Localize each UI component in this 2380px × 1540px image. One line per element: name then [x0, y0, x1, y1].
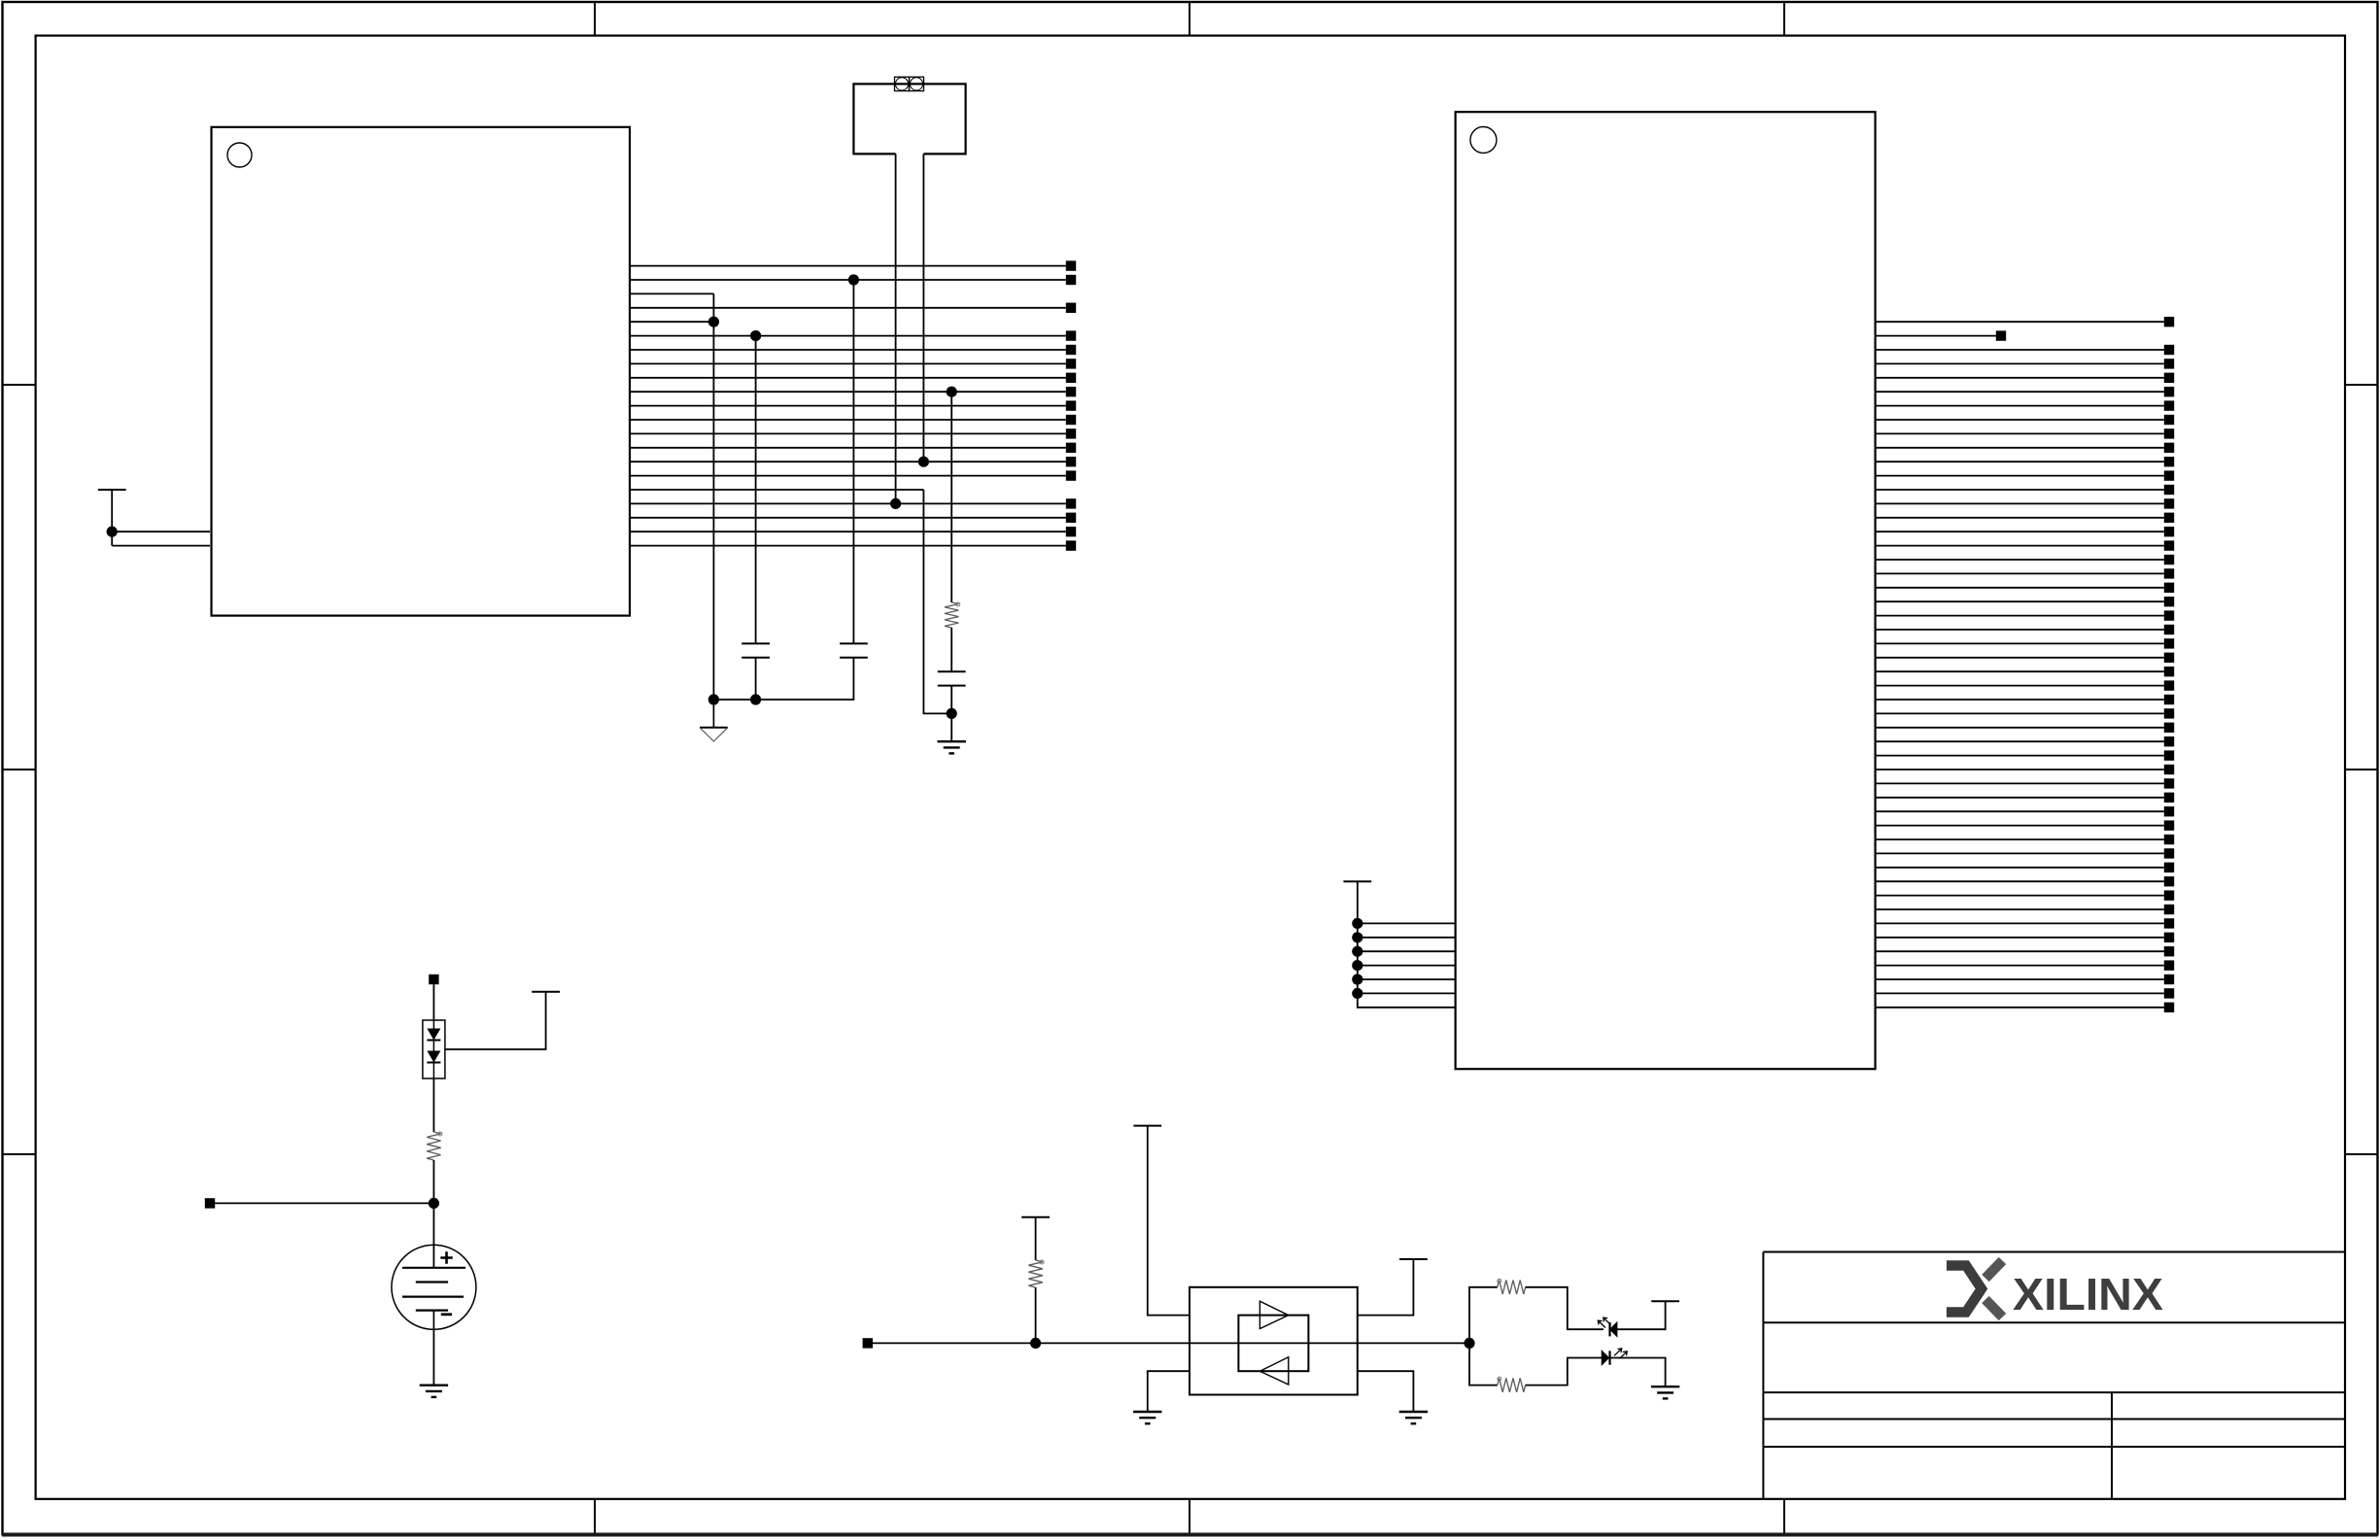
off-page terminal Q32 [2164, 750, 2174, 760]
junction J9 [947, 708, 957, 719]
off-page terminal Q9 [2164, 428, 2174, 438]
wire GND vertical x734 [712, 293, 714, 700]
wire DS2-GND wire [1610, 1358, 1666, 1387]
off-page terminal P15 [1066, 457, 1076, 466]
junction JV3 [1352, 946, 1362, 957]
wire U1 pin row A10 [630, 432, 1066, 434]
off-page terminal Q34 [2164, 778, 2174, 788]
off-page terminal Q30 [2164, 723, 2174, 733]
off-page terminal Q6 [2164, 387, 2174, 396]
wire U2 pin row B28 [1876, 712, 2164, 714]
wire U2 pin row B44 [1876, 937, 2164, 939]
wire U1 pin row A15 [630, 517, 1066, 519]
wire U2 pin row B6 [1876, 405, 2164, 407]
ground GND1 [938, 741, 966, 753]
wire U2 pin row B27 [1876, 699, 2164, 701]
resistor R3 [1028, 1260, 1044, 1287]
wire U2 pin row B43 [1876, 922, 2164, 924]
off-page terminal Q27 [2164, 680, 2174, 690]
off-page terminal P18 [1066, 498, 1076, 508]
off-page terminal P19 [1066, 513, 1076, 523]
wire U2 pin row B41 [1876, 895, 2164, 897]
wire U2 pin row B49 [1876, 1007, 2164, 1009]
junction J7 [750, 694, 761, 704]
junction J1 [708, 317, 719, 327]
resistor R2 [427, 1132, 442, 1160]
off-page terminal Q50 [2164, 1003, 2174, 1012]
wire U2 pin row B22 [1876, 629, 2164, 631]
wire U1 pin row A11 [630, 447, 1066, 449]
wire U2 pin row B19 [1876, 587, 2164, 589]
power tap VCC tap DS1 [1651, 1300, 1679, 1302]
wire U2 pin row B24 [1876, 657, 2164, 659]
wire U3 left gnd wire [1148, 1371, 1190, 1412]
wire U2 pin row B46 [1876, 965, 2164, 967]
Xilinx logo [1947, 1261, 2163, 1320]
wire R3 top lead [1035, 1217, 1037, 1260]
wire U2 pin row B29 [1876, 727, 2164, 729]
off-page terminal P8 [1066, 359, 1076, 368]
wire R1 top lead [950, 392, 952, 602]
off-page terminal P16 [1066, 470, 1076, 480]
junction JV2 [1352, 932, 1362, 942]
battery BT1 [392, 1245, 476, 1329]
IC U1 [212, 127, 631, 616]
off-page terminal Q40 [2164, 863, 2174, 873]
wire U2 pin row B32 [1876, 769, 2164, 770]
off-page terminal P6 [1066, 330, 1076, 340]
off-page terminal P13 [1066, 428, 1076, 438]
wire U2 pin row B35 [1876, 810, 2164, 812]
wire U2 pin row B31 [1876, 755, 2164, 757]
off-page terminal Q41 [2164, 876, 2174, 886]
wire U2 pin row B16 [1876, 545, 2164, 547]
off-page terminal Q39 [2164, 848, 2174, 858]
wire U1 pin row A8 [630, 405, 1066, 407]
off-page terminal P20 [1066, 527, 1076, 536]
off-page terminal P2 [1066, 275, 1076, 285]
off-page terminal Q11 [2164, 457, 2174, 466]
off-page terminal SENSE terminal [205, 1198, 215, 1208]
off-page terminal Q47 [2164, 960, 2174, 970]
wire U3 right vcc wire [1358, 1259, 1414, 1316]
junction JV6 [1352, 988, 1362, 999]
junction JV4 [1352, 960, 1362, 971]
off-page terminal Q44 [2164, 918, 2174, 928]
off-page terminal Q14 [2164, 498, 2174, 508]
wire VCCO bus vertical [1358, 881, 1456, 1008]
off-page terminal P21 [1066, 540, 1076, 550]
LED DS1 [1598, 1318, 1617, 1336]
off-page terminal Q46 [2164, 946, 2174, 956]
off-page terminal Q5 [2164, 373, 2174, 383]
wire D1-R2 lead [432, 1078, 434, 1132]
wire U2 pin row B2 [1876, 349, 2164, 351]
junction J10 [429, 1198, 439, 1209]
wire U2 pin row B38 [1876, 852, 2164, 854]
wire U1 gnd net stub [630, 321, 713, 323]
buffer U3 [1190, 1287, 1358, 1395]
wire U1 left pin lower [112, 545, 210, 547]
resistor R1 [945, 602, 960, 628]
off-page terminal Q23 [2164, 625, 2174, 634]
wire OUT wire [1358, 1342, 1469, 1344]
capacitor C3 [938, 671, 966, 685]
wire U1 pin row A16 [630, 530, 1066, 532]
wire U2 pin row B11 [1876, 475, 2164, 477]
off-page terminal Q36 [2164, 806, 2174, 816]
oscillator Y1 [853, 77, 965, 154]
wire U2 pin row B25 [1876, 670, 2164, 672]
svg-text:XILINX: XILINX [2013, 1269, 2163, 1319]
wire sense wire [215, 1202, 433, 1204]
wire U3 vcc wire [1148, 1126, 1190, 1316]
off-page terminal P12 [1066, 415, 1076, 425]
off-page terminal PWR terminal [429, 975, 438, 984]
off-page terminal P14 [1066, 443, 1076, 453]
wire U2 pin row B17 [1876, 559, 2164, 561]
wire GND net x950 descent [923, 490, 951, 713]
wire U2 pin row B3 [1876, 362, 2164, 364]
off-page terminal Q18 [2164, 555, 2174, 565]
wire LED bottom branch [1469, 1343, 1498, 1385]
wire LED top branch [1469, 1287, 1498, 1344]
off-page terminal Q17 [2164, 540, 2174, 550]
resistor R5 [1498, 1377, 1526, 1392]
wire U2 pin row B13 [1876, 502, 2164, 504]
off-page terminal Q35 [2164, 793, 2174, 803]
off-page terminal Q25 [2164, 653, 2174, 663]
wire U3 through wire [1190, 1342, 1358, 1344]
off-page terminal Q4 [2164, 359, 2174, 368]
wire R1-C3 lead [950, 628, 952, 671]
wire U1 pin row A7 [630, 391, 1066, 393]
off-page terminal Q2 [1996, 330, 2006, 340]
wire C3 bottom lead [950, 686, 952, 742]
off-page terminal Q13 [2164, 485, 2174, 495]
wire VREF stem [111, 490, 113, 546]
off-page terminal P11 [1066, 400, 1076, 410]
off-page terminal P7 [1066, 345, 1076, 355]
wire U1 pin row A3 [630, 335, 1066, 337]
junction J2 [750, 330, 761, 341]
wire GND rail [713, 699, 755, 701]
wire U1 gnd net 3 [630, 489, 923, 491]
wire U1 pin row A2 [630, 307, 1066, 309]
off-page terminal Q28 [2164, 695, 2174, 704]
wire U1 pin row A1 [630, 279, 1066, 281]
wire U2 pin row B4 [1876, 377, 2164, 379]
wire U1 gnd net corner [630, 292, 713, 294]
wire U2 pin row B45 [1876, 950, 2164, 952]
power tap VCC tap R3 [1021, 1216, 1050, 1218]
power tap VCC tap U3 [1133, 1125, 1161, 1127]
wire U2 pin row B26 [1876, 685, 2164, 687]
off-page terminal Q48 [2164, 975, 2174, 984]
off-page terminal Q26 [2164, 667, 2174, 676]
IC U2 [1456, 112, 1876, 1069]
junction J6 [708, 694, 719, 704]
wire U1 pin row A0 [630, 265, 1066, 267]
wire U2 pin row B1 (short) [1876, 335, 1996, 337]
wire U2 pin row B36 [1876, 825, 2164, 827]
junction JV1 [1352, 918, 1362, 929]
off-page terminal Q49 [2164, 988, 2174, 998]
off-page terminal Q24 [2164, 638, 2174, 648]
resistor R4 [1498, 1279, 1526, 1294]
wire U2 pin row B47 [1876, 978, 2164, 980]
wire C2 net vertical [756, 280, 854, 700]
wire U2 left pin row 6 [1358, 992, 1456, 994]
wire U2 pin row B18 [1876, 572, 2164, 574]
wire U2 left pin row 1 [1358, 922, 1456, 924]
off-page terminal Q8 [2164, 415, 2174, 425]
wire U1 pin row A17 [630, 545, 1066, 547]
capacitor C1 [742, 643, 770, 657]
junction J3 [848, 274, 859, 285]
junction left stub node [107, 527, 118, 537]
wire U2 pin row B14 [1876, 517, 2164, 519]
off-page terminal Q37 [2164, 820, 2174, 830]
off-page terminal Q33 [2164, 765, 2174, 774]
junction J12 [1464, 1338, 1474, 1349]
off-page terminal Q19 [2164, 568, 2174, 578]
wire R4-DS1 wire [1526, 1287, 1604, 1329]
wire U2 pin row B8 [1876, 432, 2164, 434]
wire U2 pin row B10 [1876, 461, 2164, 462]
junction J8 [947, 387, 957, 397]
wire U2 pin row B42 [1876, 908, 2164, 910]
off-page terminal Q3 [2164, 345, 2174, 355]
off-page terminal Q1 [2164, 317, 2174, 326]
ground GND4 [1399, 1412, 1428, 1423]
capacitor C2 [840, 643, 868, 657]
wire U2 pin row B37 [1876, 838, 2164, 840]
power tap VCCO tap [1343, 880, 1371, 882]
off-page terminal Q7 [2164, 400, 2174, 410]
wire U2 pin row B12 [1876, 489, 2164, 491]
wire U2 left pin row 4 [1358, 965, 1456, 967]
junction JV5 [1352, 974, 1362, 984]
off-page terminal Q31 [2164, 736, 2174, 746]
wire U2 pin row B21 [1876, 615, 2164, 617]
off-page terminal Q20 [2164, 583, 2174, 593]
wire U2 pin row B7 [1876, 419, 2164, 421]
off-page terminal Q10 [2164, 443, 2174, 453]
off-page terminal SIG terminal [863, 1338, 873, 1348]
ground GND5 [1651, 1386, 1679, 1398]
dual diode D1 [423, 1020, 445, 1078]
wire U1 pin row A14 [630, 502, 1066, 504]
wire R2-BT1 lead [432, 1160, 434, 1268]
wire U2 pin row B48 [1876, 992, 2164, 994]
wire C1 net vertical [755, 336, 757, 700]
junction J4 [890, 498, 901, 509]
wire Y1 left leg [895, 154, 897, 503]
wire U1 pin row A6 [630, 377, 1066, 379]
off-page terminal Q22 [2164, 610, 2174, 620]
off-page terminal Q29 [2164, 708, 2174, 718]
wire U2 pin row B23 [1876, 642, 2164, 644]
wire U2 left pin row 2 [1358, 937, 1456, 939]
wire U2 pin row B34 [1876, 797, 2164, 799]
wire U1 left pin upper [112, 530, 210, 532]
wire U2 pin row B15 [1876, 530, 2164, 532]
wire U2 pin row B30 [1876, 740, 2164, 742]
wire U2 pin row B9 [1876, 447, 2164, 449]
wire Y1 right leg [922, 154, 924, 462]
power tap VREF tap [98, 489, 126, 491]
off-page terminal Q15 [2164, 513, 2174, 523]
off-page terminal Q21 [2164, 597, 2174, 606]
off-page terminal Q42 [2164, 890, 2174, 900]
wire U1 pin row A9 [630, 419, 1066, 421]
wire U2 pin row B5 [1876, 391, 2164, 393]
wire R5-DS2 wire [1526, 1358, 1603, 1386]
LED DS2 [1602, 1349, 1627, 1365]
wire U1 pin row A13 [630, 475, 1066, 477]
wire U3 right gnd wire [1358, 1371, 1414, 1412]
off-page terminal P10 [1066, 387, 1076, 396]
analog ground AGND [700, 700, 728, 741]
junction J11 [1030, 1338, 1041, 1349]
wire U2 pin row B33 [1876, 782, 2164, 784]
power tap VBATT tap [532, 991, 560, 993]
wire U1 pin row A4 [630, 349, 1066, 351]
wire DS1-VCC wire [1617, 1301, 1666, 1329]
off-page terminal Q43 [2164, 905, 2174, 914]
wire BT1-GND lead [432, 1329, 434, 1385]
off-page terminal Q16 [2164, 527, 2174, 536]
wire D1 tap to VBATT [445, 992, 546, 1049]
wire SIG wire [873, 1342, 1190, 1344]
wire R3 bottom lead [1035, 1287, 1037, 1343]
off-page terminal Q45 [2164, 933, 2174, 942]
off-page terminal P4 [1066, 303, 1076, 313]
ground GND3 [1133, 1412, 1161, 1423]
off-page terminal P9 [1066, 373, 1076, 383]
wire U1 pin row A5 [630, 362, 1066, 364]
wire U2 pin row B40 [1876, 880, 2164, 882]
wire U2 pin row B39 [1876, 867, 2164, 869]
wire U1 pin row A12 [630, 461, 1066, 462]
wire D1 top lead [432, 984, 434, 1020]
wire U2 pin row B0 [1876, 321, 2164, 323]
wire U2 left pin row 3 [1358, 950, 1456, 952]
off-page terminal Q38 [2164, 835, 2174, 844]
wire U2 pin row B20 [1876, 600, 2164, 602]
ground GND2 [420, 1386, 448, 1397]
junction J5 [918, 457, 929, 467]
power tap VCC tap U3 out [1399, 1258, 1428, 1260]
off-page terminal Q12 [2164, 470, 2174, 480]
off-page terminal P1 [1066, 260, 1076, 270]
wire U2 left pin row 5 [1358, 978, 1456, 980]
